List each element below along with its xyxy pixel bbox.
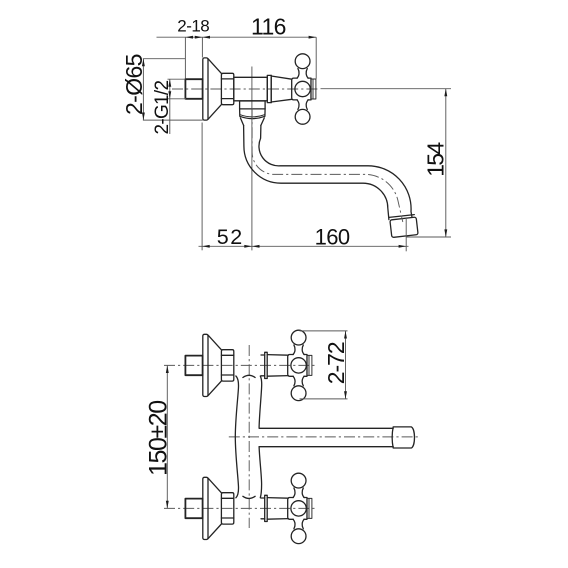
spout tip collar joint [389, 215, 414, 218]
spout nut facet curve [240, 115, 265, 117]
lower valve tube stub [261, 498, 265, 519]
spout nut [240, 109, 266, 119]
spout tube inner edge [259, 125, 412, 216]
dimension 2-18 [157, 36, 317, 38]
lower wall inlet [185, 477, 233, 539]
spout neck taper [240, 118, 264, 126]
svg-text:2-G1/2: 2-G1/2 [152, 80, 173, 135]
dimension 154 [321, 89, 452, 237]
svg-text:150±20: 150±20 [144, 400, 172, 476]
dimension 160 [405, 218, 407, 251]
upper wall inlet [185, 334, 233, 396]
upper handle [288, 330, 312, 400]
spout plan tube [259, 428, 393, 446]
upper valve tube stub [261, 355, 265, 376]
centerline lower valve [164, 507, 315, 509]
body column left edge [235, 376, 238, 498]
lower handle [288, 473, 312, 543]
svg-text:116: 116 [251, 13, 287, 39]
valve body tube [234, 77, 267, 101]
ring flange [267, 75, 271, 102]
body column right edge lower [259, 447, 262, 498]
svg-text:154: 154 [423, 142, 449, 177]
spout swivel axis extension line [251, 67, 253, 251]
svg-text:2-Ø65: 2-Ø65 [121, 54, 147, 116]
taper section [271, 75, 292, 102]
lower valve taper [267, 498, 288, 520]
upper valve taper [267, 355, 288, 377]
cross handle U [292, 54, 316, 124]
aerator plan [392, 427, 414, 448]
centerline column [248, 345, 250, 528]
dimension 2-G1/2 [168, 79, 187, 99]
svg-text:2-18: 2-18 [177, 17, 210, 36]
centerline faucet axis [172, 88, 318, 90]
spout centerline [252, 108, 403, 222]
spout collar [240, 101, 266, 109]
body column right edge upper [259, 376, 262, 428]
upper valve ring [265, 352, 268, 378]
lower valve ring [265, 495, 268, 521]
lower tee shoulder arc [243, 496, 255, 498]
svg-text:2-72: 2-72 [323, 341, 349, 384]
centerline spout plan [229, 436, 420, 438]
dimension 2-72 [300, 331, 348, 399]
spout tube outer edge [244, 125, 389, 219]
aerator [390, 217, 418, 237]
dimension 116 [315, 37, 317, 79]
dimension 150±20 [166, 365, 168, 508]
dimension 2-O65 [143, 59, 203, 120]
svg-text:160: 160 [315, 224, 351, 249]
wall inlet assembly [185, 58, 233, 120]
upper tee shoulder arc [243, 375, 255, 377]
centerline upper valve [164, 364, 315, 366]
svg-text:52: 52 [217, 225, 243, 249]
dimension 52 [199, 245, 409, 247]
